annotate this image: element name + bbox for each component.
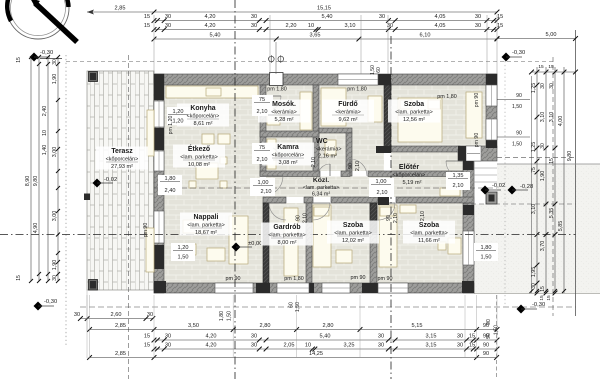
wall right upper exterior [486, 74, 497, 148]
bottom dimension row 2 [154, 339, 497, 341]
svg-text:Szoba: Szoba [404, 101, 424, 108]
svg-text:4,20: 4,20 [205, 23, 216, 29]
svg-text:3,00: 3,00 [52, 211, 58, 222]
washbasin [368, 96, 382, 122]
kitchen table [202, 134, 214, 144]
svg-text:4,05: 4,05 [435, 23, 446, 29]
svg-text:30: 30 [165, 343, 171, 349]
living room rug [229, 216, 248, 264]
wall gardrob-szoba [306, 203, 312, 283]
svg-text:15,15: 15,15 [317, 6, 331, 12]
label Szoba top-right [388, 100, 440, 123]
svg-text:pm 1,80: pm 1,80 [284, 276, 303, 282]
svg-text:75: 75 [531, 167, 537, 173]
svg-text:-0,30: -0,30 [40, 50, 53, 56]
ground bottom edge line [474, 293, 600, 295]
level marker -0.30 top-left [30, 53, 39, 62]
level marker -0.02 terrace [93, 179, 102, 188]
svg-text:30: 30 [457, 343, 463, 349]
window bottom nappali [215, 283, 253, 293]
svg-text:Nappali: Nappali [194, 214, 219, 221]
terrain line right y164 [497, 163, 600, 165]
floor Szoba top-right [391, 85, 486, 146]
svg-text:1,50: 1,50 [227, 311, 233, 321]
svg-text:pm 1,80: pm 1,80 [267, 87, 286, 93]
right window leader dims [497, 99, 530, 101]
svg-text:2,10: 2,10 [311, 157, 317, 167]
dimension label backing boxes [252, 95, 273, 116]
pier bottom wall at gardrob [304, 283, 314, 293]
terrace corner pillar top [89, 72, 98, 82]
pier top wall at furdo wall [378, 74, 391, 85]
svg-text:2,85: 2,85 [115, 6, 126, 12]
label Gardrob [261, 223, 313, 246]
svg-text:15: 15 [546, 295, 552, 301]
svg-text:Kamra: Kamra [277, 144, 299, 151]
svg-text:30: 30 [251, 343, 257, 349]
svg-text:15: 15 [539, 295, 545, 301]
dining table and chairs [196, 163, 218, 179]
svg-text:Előtér: Előtér [399, 162, 420, 171]
svg-text:3,08 m²: 3,08 m² [279, 160, 298, 166]
dashed horizontal y307 [80, 306, 576, 308]
svg-text:3,25: 3,25 [344, 343, 355, 349]
terrace door leaf 2 [146, 228, 154, 272]
svg-text:<lam. parketta>: <lam. parketta> [303, 185, 339, 191]
svg-text:2,10: 2,10 [393, 213, 399, 223]
pier left wall 1 [154, 128, 164, 150]
bottom extension lines [86, 295, 88, 358]
dashed vertical x496 bottom [496, 295, 498, 379]
svg-text:2,10: 2,10 [257, 157, 268, 163]
wall wc top [319, 128, 352, 133]
svg-text:30: 30 [540, 83, 546, 89]
svg-text:1,50: 1,50 [512, 104, 522, 110]
window right upper 2 [486, 119, 497, 140]
entry porch column [486, 192, 497, 204]
svg-text:pm 90: pm 90 [474, 133, 480, 148]
svg-text:10: 10 [305, 343, 311, 349]
floor WC [322, 133, 346, 171]
svg-text:<lam. parketta>: <lam. parketta> [334, 231, 371, 237]
svg-text:90: 90 [483, 351, 489, 357]
level marker -0.30 top-right [502, 53, 511, 62]
wall corridor top [260, 171, 320, 177]
left dimension columns [30, 57, 32, 281]
svg-text:30: 30 [549, 83, 555, 89]
pier szoba-tr eloter [376, 146, 391, 153]
bottom dimension row 1 [90, 329, 498, 331]
svg-text:11,66 m²: 11,66 m² [418, 238, 440, 244]
svg-text:1,25: 1,25 [531, 83, 537, 94]
ground texture right of house [497, 164, 600, 294]
pier right lower wall [463, 205, 474, 215]
level marker -0.28 right [508, 186, 517, 195]
axis dashed vertical x391 [390, 36, 392, 379]
svg-text:75: 75 [259, 145, 265, 151]
svg-text:<lam. parketta>: <lam. parketta> [395, 110, 432, 116]
svg-text:-0,02: -0,02 [104, 177, 117, 183]
svg-text:15: 15 [16, 275, 22, 281]
svg-text:30: 30 [457, 334, 463, 340]
wall nappali-gardrob dark [263, 203, 269, 283]
top dimension row 2 [154, 20, 497, 22]
svg-text:6,10: 6,10 [420, 33, 431, 39]
entry porch steps [474, 167, 497, 169]
window right lower [463, 231, 474, 265]
floor Nappali [164, 188, 263, 283]
svg-text:15: 15 [144, 23, 150, 29]
pier bottom-right corner [462, 281, 474, 293]
window right upper 1 [486, 85, 497, 106]
bed top-right room [398, 98, 442, 142]
svg-text:pm 90: pm 90 [378, 276, 393, 282]
svg-text:1,50: 1,50 [178, 255, 189, 261]
svg-text:<kerámia>: <kerámia> [271, 110, 296, 116]
svg-text:3,65: 3,65 [310, 33, 321, 39]
svg-text:3,10: 3,10 [549, 112, 555, 123]
svg-text:<kőporcelán>: <kőporcelán> [106, 157, 139, 163]
label Kamra [262, 143, 314, 166]
svg-text:1,25: 1,25 [531, 142, 537, 153]
door entry [446, 161, 463, 178]
window bottom gardrob [277, 283, 309, 293]
svg-text:-0,28: -0,28 [520, 184, 533, 190]
svg-text:12,56 m²: 12,56 m² [403, 117, 425, 123]
svg-text:15: 15 [540, 286, 546, 292]
svg-text:3,10: 3,10 [531, 204, 537, 215]
svg-text:2,10: 2,10 [257, 109, 268, 115]
top dimension row 1 [87, 11, 497, 13]
svg-text:Szoba: Szoba [419, 222, 439, 229]
svg-text:9,80: 9,80 [33, 176, 39, 187]
svg-text:9,80: 9,80 [567, 151, 573, 162]
bed bottom-right room [379, 205, 397, 267]
terrace corner pillar bottom [89, 280, 98, 291]
svg-text:30: 30 [540, 143, 546, 149]
svg-text:1,40: 1,40 [42, 145, 48, 156]
top dimension row 4 [154, 38, 497, 40]
terrace floor hatch [87, 71, 154, 290]
svg-text:8,00 m²: 8,00 m² [278, 240, 297, 246]
svg-text:4,20: 4,20 [206, 343, 217, 349]
svg-text:5,85: 5,85 [558, 221, 564, 232]
svg-text:4,90: 4,90 [33, 223, 39, 234]
svg-text:2,10: 2,10 [420, 211, 426, 221]
wall mosok-furdo [313, 85, 319, 176]
svg-text:Szoba: Szoba [343, 222, 363, 229]
svg-text:90: 90 [348, 163, 354, 169]
svg-text:4,20: 4,20 [205, 14, 216, 20]
svg-text:1,00: 1,00 [376, 179, 387, 185]
svg-text:90: 90 [516, 131, 522, 137]
svg-text:1,35: 1,35 [453, 173, 464, 179]
wc bowl [325, 140, 336, 155]
svg-text:3,70: 3,70 [540, 241, 546, 252]
svg-text:pm 90: pm 90 [474, 93, 480, 108]
svg-text:30: 30 [165, 14, 171, 20]
svg-text:15: 15 [549, 158, 555, 164]
svg-text:15: 15 [469, 343, 475, 349]
svg-text:pm 90: pm 90 [226, 276, 241, 282]
svg-text:Étkező: Étkező [188, 144, 210, 153]
laundry machines [267, 112, 280, 125]
svg-text:60: 60 [376, 67, 382, 73]
floor Mosok [266, 85, 313, 131]
svg-text:15: 15 [497, 14, 503, 20]
floor Gardrob [269, 203, 306, 283]
level marker -0.30 bottom-right [517, 305, 526, 314]
bed bottom-mid room [313, 205, 331, 267]
svg-text:60: 60 [289, 302, 295, 308]
svg-text:30: 30 [378, 334, 384, 340]
window top furdo [338, 74, 378, 85]
svg-text:2,40: 2,40 [165, 188, 176, 194]
svg-text:<lam. parketta>: <lam. parketta> [180, 155, 217, 161]
dotted vertical x505 [504, 61, 506, 307]
pier top-left corner [154, 74, 164, 100]
svg-text:90: 90 [486, 333, 492, 339]
svg-text:2,85: 2,85 [115, 323, 126, 329]
svg-text:Fürdő: Fürdő [338, 101, 358, 108]
svg-text:1,80: 1,80 [481, 245, 492, 251]
label Etkezo [173, 145, 225, 168]
floor Szoba bottom-mid [312, 203, 370, 283]
living room sofa [183, 220, 205, 233]
floor Kamra [266, 137, 313, 171]
svg-text:3,15: 3,15 [426, 334, 437, 340]
wall left exterior [154, 74, 164, 293]
svg-text:±0,00: ±0,00 [248, 241, 262, 247]
terrace door leaf 1 [147, 110, 154, 156]
pier entry wall [458, 146, 466, 161]
svg-text:2,10: 2,10 [377, 190, 388, 196]
wall bottom exterior [154, 283, 474, 293]
wall entry recess [458, 146, 497, 161]
svg-text:Gardrób: Gardrób [273, 224, 300, 231]
svg-text:1,80: 1,80 [165, 176, 176, 182]
svg-text:5,40: 5,40 [322, 14, 333, 20]
dotted vertical x66 [65, 55, 67, 345]
svg-text:15: 15 [469, 334, 475, 340]
label Terasz [96, 147, 148, 170]
dashed vertical x128 [128, 55, 130, 379]
wall corridor bottom [263, 197, 286, 203]
svg-text:2,85: 2,85 [115, 351, 126, 357]
svg-text:15: 15 [538, 64, 544, 70]
svg-text:90: 90 [296, 215, 302, 221]
pier left wall 2 [154, 245, 164, 269]
svg-text:90: 90 [386, 215, 392, 221]
label Mosok [258, 100, 310, 123]
window bottom szoba-mid [322, 283, 350, 293]
svg-text:pm 1,80: pm 1,80 [347, 87, 366, 93]
dashed horizontal right y204 [463, 203, 576, 205]
svg-text:14,25: 14,25 [309, 351, 323, 357]
label Nappali [180, 213, 232, 236]
right dimension top ticks [532, 71, 576, 73]
svg-text:12,02 m²: 12,02 m² [342, 238, 364, 244]
window left etkezo [154, 151, 164, 171]
svg-text:1,90: 1,90 [52, 74, 58, 85]
svg-text:2,16 m²: 2,16 m² [318, 154, 337, 160]
svg-text:2,80: 2,80 [260, 323, 271, 329]
svg-text:1,00: 1,00 [258, 180, 269, 186]
svg-text:2,80: 2,80 [323, 323, 334, 329]
floor Eloter [391, 152, 463, 197]
dashed horizontal top y61.5 [66, 61, 553, 63]
svg-text:5,19 m²: 5,19 m² [403, 180, 422, 186]
pier top-right corner [486, 74, 497, 85]
svg-text:<kőporcelán>: <kőporcelán> [393, 173, 426, 179]
svg-text:3,50: 3,50 [188, 323, 199, 329]
svg-text:15: 15 [144, 334, 150, 340]
svg-text:6,34 m²: 6,34 m² [312, 192, 330, 198]
door etkezo-kamra [266, 146, 280, 160]
svg-text:5,40: 5,40 [320, 334, 331, 340]
svg-text:10: 10 [308, 23, 314, 29]
desk bottom-mid room [336, 250, 352, 263]
level marker -0.30 bottom-left [34, 302, 43, 311]
svg-text:<lam. parketta>: <lam. parketta> [187, 223, 224, 229]
dashed horizontal y188 [154, 187, 497, 189]
svg-text:30: 30 [251, 14, 257, 20]
svg-text:15: 15 [144, 343, 150, 349]
svg-text:1,80: 1,80 [219, 311, 225, 321]
svg-text:10: 10 [42, 130, 48, 136]
svg-text:2,10: 2,10 [355, 161, 361, 171]
axis dashed vertical x235 [234, 0, 236, 379]
level marker -0.02 entry [481, 186, 490, 195]
wardrobe top-right room [466, 92, 482, 138]
svg-text:-0,30: -0,30 [512, 50, 525, 56]
svg-text:1,50: 1,50 [481, 255, 492, 261]
floor Konyha-Etkezo [164, 85, 260, 188]
entry cabinet [440, 188, 460, 196]
svg-text:18,67 m²: 18,67 m² [195, 230, 217, 236]
svg-text:Mosók.: Mosók. [272, 101, 296, 108]
svg-text:30: 30 [165, 23, 171, 29]
bottom dimension row 0 terrace [80, 318, 152, 320]
top dimension row 3 [154, 29, 497, 31]
entry door gap [466, 146, 481, 161]
door wc [318, 164, 330, 176]
svg-text:4,05: 4,05 [435, 14, 446, 20]
wall szoba-szoba [370, 203, 377, 283]
gas connection circles [269, 56, 275, 62]
svg-text:5,00: 5,00 [546, 32, 557, 38]
floor Szoba bottom-right [377, 203, 463, 283]
top extension lines [153, 15, 155, 74]
svg-text:30: 30 [52, 59, 58, 65]
boundary line right x575.5 [575, 30, 577, 316]
svg-text:pm 90: pm 90 [351, 275, 366, 281]
svg-text:75: 75 [259, 97, 265, 103]
svg-text:-0,30: -0,30 [532, 302, 545, 308]
svg-text:3,10: 3,10 [345, 23, 356, 29]
svg-text:-0,02: -0,02 [492, 183, 505, 189]
svg-text:2,10: 2,10 [303, 213, 309, 223]
svg-text:2,40: 2,40 [42, 106, 48, 117]
svg-text:1,50: 1,50 [295, 302, 301, 312]
svg-text:90: 90 [516, 93, 522, 99]
pier bottom wall 1 [256, 283, 270, 293]
desk bottom-right room [448, 238, 461, 254]
door gardrob [269, 203, 286, 220]
kitchen counter [166, 86, 258, 98]
svg-text:8,90: 8,90 [25, 176, 31, 187]
svg-text:2,20: 2,20 [286, 23, 297, 29]
svg-text:1,50: 1,50 [512, 142, 522, 148]
pier right upper wall [486, 140, 497, 148]
svg-text:<kerámia>: <kerámia> [316, 147, 341, 153]
svg-text:30: 30 [379, 14, 385, 20]
bathtub [321, 88, 346, 126]
svg-text:<lam. parketta>: <lam. parketta> [268, 233, 305, 239]
right dimension columns [536, 67, 538, 293]
svg-text:5,15: 5,15 [412, 323, 423, 329]
svg-text:5,35: 5,35 [549, 208, 555, 219]
label Szoba bottom-right [403, 221, 455, 244]
wall furdo-szoba dark [384, 85, 391, 152]
gardrob wardrobe [284, 208, 298, 276]
svg-text:<kerámia>: <kerámia> [335, 110, 360, 116]
door konyha-mosok [266, 96, 281, 111]
pier corridor eloter [378, 196, 389, 205]
label Szoba bottom-mid [327, 221, 379, 244]
level marker +-0.00 nappali [232, 243, 241, 252]
svg-text:8,61 m²: 8,61 m² [194, 121, 213, 127]
right dimension ticks [535, 83, 540, 88]
window bottom szoba-right [378, 283, 408, 293]
svg-text:2,10: 2,10 [261, 189, 272, 195]
svg-text:2,05: 2,05 [284, 343, 295, 349]
svg-text:27,93 m²: 27,93 m² [111, 164, 133, 170]
wall konyha-mosok [260, 85, 266, 96]
door furdo [350, 159, 367, 176]
wall szoba-tr bottom [384, 146, 460, 152]
svg-text:Közl.: Közl. [313, 177, 329, 184]
svg-text:30: 30 [165, 334, 171, 340]
svg-text:30: 30 [147, 312, 153, 318]
svg-text:1,90: 1,90 [540, 171, 546, 182]
svg-text:pm 1,20: pm 1,20 [168, 116, 174, 135]
svg-text:3,00: 3,00 [52, 147, 58, 158]
svg-text:1,20: 1,20 [178, 245, 189, 251]
svg-text:15: 15 [548, 64, 554, 70]
svg-text:-0,30: -0,30 [44, 299, 57, 305]
label Konyha [177, 104, 229, 127]
svg-text:1,95: 1,95 [531, 267, 537, 278]
svg-text:<kőporcelán>: <kőporcelán> [272, 153, 305, 159]
door szoba-right [378, 203, 395, 220]
svg-text:3,10: 3,10 [540, 112, 546, 123]
window left konyha [154, 101, 164, 127]
floor corridor Kozl [266, 177, 463, 198]
label Furdo [322, 100, 374, 123]
svg-text:15: 15 [16, 57, 22, 63]
pantry shelf [267, 139, 276, 169]
pier bottom wall 2 [362, 283, 380, 293]
dashed horizontal right y158 [497, 157, 576, 159]
svg-text:5,40: 5,40 [210, 33, 221, 39]
svg-text:Terasz: Terasz [111, 148, 133, 155]
terrace edge marker [84, 194, 90, 201]
svg-text:30: 30 [251, 23, 257, 29]
svg-text:30: 30 [74, 312, 80, 318]
svg-text:15: 15 [144, 14, 150, 20]
wall mosok-kamra [260, 131, 319, 137]
